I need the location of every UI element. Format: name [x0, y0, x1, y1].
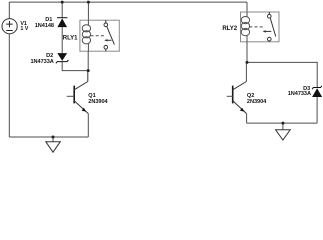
svg-text:1N4148: 1N4148: [35, 23, 54, 29]
svg-text:1 V: 1 V: [20, 26, 28, 32]
svg-text:RLY1: RLY1: [63, 34, 78, 41]
svg-text:1N4733A: 1N4733A: [288, 91, 311, 97]
svg-text:RLY2: RLY2: [222, 25, 237, 32]
svg-text:Q2: Q2: [247, 93, 254, 99]
svg-text:1N4733A: 1N4733A: [31, 59, 54, 65]
svg-text:Q1: Q1: [88, 93, 95, 99]
svg-text:2N3904: 2N3904: [88, 99, 108, 105]
svg-text:2N3904: 2N3904: [247, 99, 267, 105]
